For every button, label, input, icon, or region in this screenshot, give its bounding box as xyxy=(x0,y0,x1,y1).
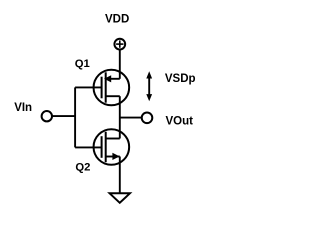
gate bar xyxy=(101,77,103,99)
svg-text:VDD: VDD xyxy=(105,13,129,25)
output terminal circle xyxy=(142,113,153,124)
gate lead xyxy=(75,86,102,88)
svg-text:VOut: VOut xyxy=(166,116,194,128)
wire input to gate bus xyxy=(53,115,76,117)
ground symbol xyxy=(110,193,130,203)
svg-text:VIn: VIn xyxy=(14,102,32,114)
output tap wire xyxy=(120,117,142,119)
gate lead xyxy=(75,146,102,148)
svg-text:Q1: Q1 xyxy=(75,58,90,70)
drain lead (bottom) xyxy=(106,95,120,97)
source lead (top) xyxy=(106,78,120,80)
VSDp double arrow xyxy=(146,71,152,101)
wire Q2 source to ground xyxy=(119,157,121,194)
gate bus vertical xyxy=(74,87,76,147)
svg-text:Q2: Q2 xyxy=(75,162,90,174)
svg-text:VSDp: VSDp xyxy=(165,73,196,85)
input terminal circle xyxy=(42,111,52,121)
channel bar xyxy=(105,72,107,102)
wire Q1 drain to Q2 drain xyxy=(119,96,121,138)
gate bar xyxy=(101,136,103,158)
supply terminal (+) xyxy=(114,39,125,50)
transistor Q1 (PMOS) xyxy=(75,70,129,106)
wire VDD to Q1 source xyxy=(119,49,121,79)
transistor Q2 (NMOS) xyxy=(75,129,129,165)
drain lead (top) xyxy=(106,138,120,140)
Q2 arrow (points right toward source) xyxy=(112,153,119,160)
Q1 arrow (points left into channel) xyxy=(104,75,111,82)
source lead (bottom) xyxy=(106,156,120,158)
channel bar xyxy=(105,132,107,162)
